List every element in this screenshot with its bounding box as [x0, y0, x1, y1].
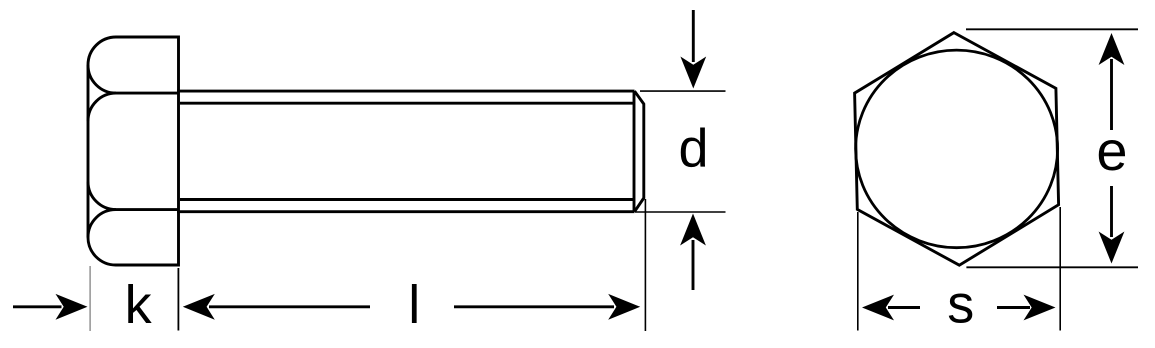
head middle facet lower fillet arc [88, 182, 116, 210]
shaft outer bottom line [177, 210, 635, 213]
extension line k left [89, 266, 91, 331]
svg-text:d: d [678, 118, 708, 178]
dimension arrow e bottom (pointing down) [1099, 186, 1125, 264]
extension line d top [640, 90, 726, 92]
svg-text:k: k [125, 275, 153, 335]
extension line e bottom [966, 266, 1138, 268]
head bottom facet line [116, 208, 179, 211]
head top facet line [116, 92, 179, 95]
dimension arrow e top (pointing up) [1099, 33, 1125, 130]
svg-text:s: s [947, 274, 974, 334]
svg-text:e: e [1096, 119, 1127, 182]
dimension arrow k left (pointing right) [13, 294, 88, 320]
extension line d bottom [635, 211, 726, 213]
extension line s right [1059, 207, 1061, 331]
dimension arrow d bottom (pointing up) [680, 214, 706, 291]
dimension arrow s left (pointing left) [862, 295, 920, 321]
extension line e top [966, 28, 1138, 30]
hex head hexagon (top view) [855, 33, 1059, 266]
bolt head outline (side view) [88, 37, 179, 265]
dimension arrow l left (pointing left) [183, 294, 370, 320]
inscribed circle [856, 50, 1058, 248]
head bottom facet upper arc [88, 210, 116, 238]
extension line s left [857, 212, 859, 331]
thread runout vertical line [633, 91, 636, 212]
extension line l right [644, 199, 646, 331]
shaft outer top line [177, 90, 635, 93]
dimension arrow d top (pointing down) [680, 10, 706, 89]
dimension arrow l right (pointing right) [454, 294, 640, 320]
shaft end chamfer [635, 91, 644, 212]
thread inner top line [180, 102, 634, 105]
dimension arrow s right (pointing right) [997, 295, 1056, 321]
head middle facet upper fillet arc [88, 93, 116, 121]
head top facet lower arc [88, 65, 116, 93]
thread inner bottom line [180, 198, 634, 201]
extension line k right / head edge [177, 268, 179, 331]
svg-text:l: l [408, 275, 420, 335]
